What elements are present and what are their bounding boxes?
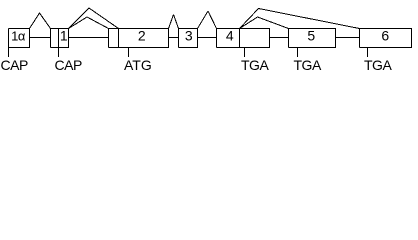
svg-text:6: 6	[381, 28, 389, 44]
exon box 1alpha	[9, 29, 30, 48]
intron caret 1alpha-1	[30, 13, 51, 29]
wire link 1 to 2	[69, 37, 109, 39]
tick TGA stop codon 2	[297, 48, 299, 58]
wire link 2 to 3	[169, 37, 179, 39]
exon box 4 (with internal divider)	[217, 29, 270, 48]
exon box 3	[179, 29, 198, 48]
svg-text:CAP: CAP	[1, 57, 28, 73]
wire link 4 to 5	[270, 37, 289, 39]
svg-text:TGA: TGA	[364, 57, 392, 73]
exon box 2	[109, 29, 169, 48]
tick CAP site 2	[58, 48, 60, 58]
exon box 1 (with internal divider)	[51, 29, 69, 48]
svg-text:TGA: TGA	[241, 57, 269, 73]
svg-text:CAP: CAP	[55, 57, 82, 73]
svg-text:2: 2	[138, 28, 146, 44]
tick TGA stop codon 1	[244, 48, 246, 58]
intron caret 4-5	[240, 17, 289, 29]
exon box 6	[360, 29, 412, 48]
svg-text:TGA: TGA	[294, 57, 322, 73]
svg-text:ATG: ATG	[124, 57, 152, 73]
intron caret 2-3	[169, 15, 179, 29]
divider in exon box 2	[118, 29, 120, 48]
wire link 3 to 4	[198, 37, 217, 39]
intron caret 1-2 upper (to exon2 divider)	[69, 8, 119, 29]
svg-text:1α: 1α	[11, 29, 26, 44]
svg-text:1: 1	[60, 28, 68, 44]
tick ATG start codon	[128, 48, 130, 58]
svg-text:3: 3	[185, 28, 193, 44]
tick TGA stop codon 3	[367, 48, 369, 58]
svg-text:4: 4	[226, 28, 234, 44]
exon box 5	[289, 29, 336, 48]
divider in exon box 4	[239, 29, 241, 48]
intron caret 1-2 lower (to exon2 start)	[69, 17, 109, 29]
tick CAP site 1	[8, 48, 10, 58]
intron caret 4-6 (exon 5 skipping)	[240, 9, 360, 29]
intron caret 3-4	[198, 11, 217, 29]
svg-text:5: 5	[307, 28, 315, 44]
wire link 5 to 6	[336, 37, 360, 39]
divider in exon box 1	[58, 29, 60, 48]
wire link 1alpha to 1	[30, 37, 51, 39]
